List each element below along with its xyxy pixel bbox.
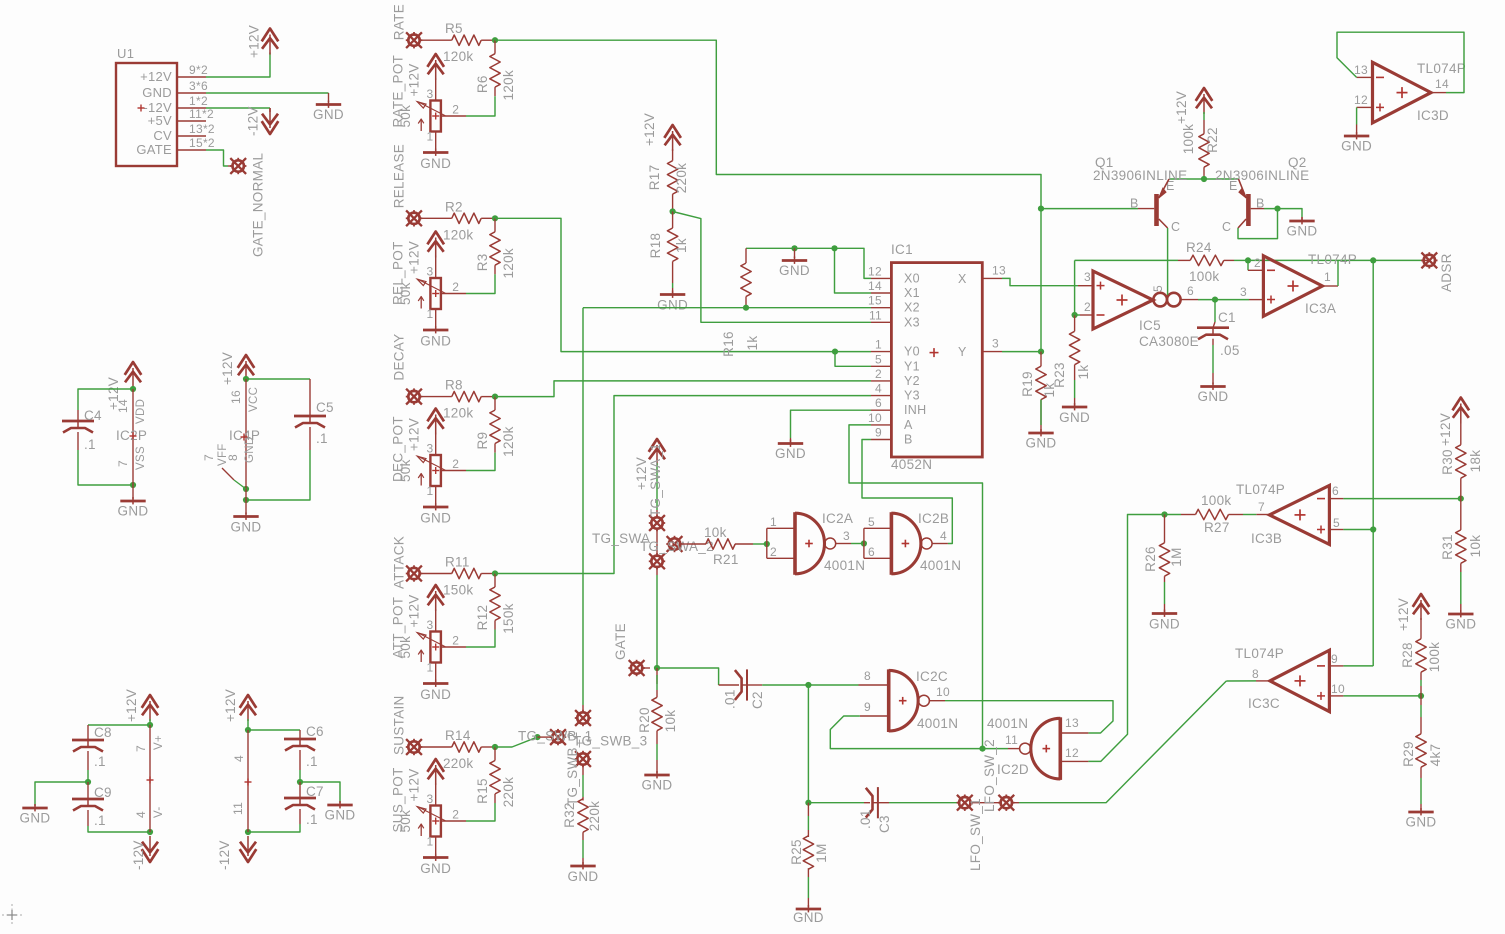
svg-text:R30: R30 xyxy=(1440,449,1455,475)
svg-text:50k: 50k xyxy=(398,810,413,833)
svg-text:15: 15 xyxy=(868,294,882,308)
svg-text:TG_SWB_3: TG_SWB_3 xyxy=(573,734,647,749)
svg-text:6: 6 xyxy=(875,396,882,410)
svg-text:+12V: +12V xyxy=(124,689,139,722)
svg-text:GND: GND xyxy=(420,511,451,526)
svg-text:12: 12 xyxy=(868,264,882,278)
svg-text:GND: GND xyxy=(20,811,51,826)
svg-text:1k: 1k xyxy=(745,336,760,351)
svg-text:Y0: Y0 xyxy=(904,345,920,359)
svg-text:C4: C4 xyxy=(84,408,102,423)
svg-text:+12V: +12V xyxy=(140,69,172,84)
svg-text:C2: C2 xyxy=(750,691,765,709)
svg-text:C6: C6 xyxy=(306,724,324,739)
svg-text:4001N: 4001N xyxy=(920,558,961,573)
svg-text:+12V: +12V xyxy=(407,63,422,96)
svg-text:-12V: -12V xyxy=(131,840,146,870)
svg-text:11: 11 xyxy=(1005,733,1018,747)
svg-text:18k: 18k xyxy=(1468,450,1483,473)
svg-text:GND: GND xyxy=(420,156,451,171)
svg-text:13: 13 xyxy=(1065,716,1079,730)
svg-text:RELEASE: RELEASE xyxy=(392,144,407,208)
svg-text:ADSR: ADSR xyxy=(1439,253,1454,292)
svg-text:10k: 10k xyxy=(704,525,727,540)
svg-text:IC5: IC5 xyxy=(1139,318,1161,333)
svg-text:10: 10 xyxy=(868,411,882,425)
svg-text:220k: 220k xyxy=(674,163,689,193)
svg-text:2: 2 xyxy=(452,808,459,822)
svg-text:1: 1 xyxy=(427,130,434,144)
svg-text:2: 2 xyxy=(452,634,459,648)
svg-text:TG_SWA_2: TG_SWA_2 xyxy=(640,539,714,554)
svg-text:GND: GND xyxy=(1149,617,1180,632)
svg-text:LFO_SW_1: LFO_SW_1 xyxy=(968,798,983,871)
svg-text:-12V: -12V xyxy=(217,840,232,870)
svg-text:V-: V- xyxy=(153,807,165,818)
svg-text:4: 4 xyxy=(232,755,246,762)
svg-text:.1: .1 xyxy=(316,431,328,446)
svg-text:220k: 220k xyxy=(587,801,602,831)
svg-text:Y1: Y1 xyxy=(904,359,920,373)
svg-text:GND: GND xyxy=(793,910,824,925)
svg-text:GND: GND xyxy=(325,808,356,823)
svg-text:C: C xyxy=(1222,220,1231,234)
svg-text:LFO_SW_2: LFO_SW_2 xyxy=(982,739,997,812)
svg-text:8: 8 xyxy=(1252,667,1259,681)
svg-text:X: X xyxy=(958,272,967,286)
svg-text:2N3906INLINE: 2N3906INLINE xyxy=(1093,168,1187,183)
svg-text:4: 4 xyxy=(940,529,947,543)
svg-text:R12: R12 xyxy=(475,605,490,631)
svg-text:R6: R6 xyxy=(475,75,490,93)
svg-text:15*2: 15*2 xyxy=(189,136,215,150)
svg-text:R8: R8 xyxy=(445,378,463,393)
svg-text:4001N: 4001N xyxy=(917,716,958,731)
svg-text:11: 11 xyxy=(869,308,882,322)
svg-text:.1: .1 xyxy=(84,437,96,452)
svg-text:X1: X1 xyxy=(904,286,920,300)
svg-text:1: 1 xyxy=(770,515,777,529)
svg-text:R24: R24 xyxy=(1186,240,1212,255)
svg-text:3: 3 xyxy=(427,618,434,632)
svg-text:1: 1 xyxy=(1324,270,1331,284)
svg-text:4: 4 xyxy=(875,382,882,396)
svg-text:R5: R5 xyxy=(445,21,463,36)
svg-text:5: 5 xyxy=(875,352,882,366)
svg-text:INH: INH xyxy=(904,403,926,417)
svg-text:GND: GND xyxy=(657,298,688,313)
svg-text:R22: R22 xyxy=(1205,127,1220,153)
svg-text:50k: 50k xyxy=(398,459,413,482)
svg-text:13*2: 13*2 xyxy=(189,122,215,136)
svg-text:+12V: +12V xyxy=(1174,91,1189,124)
svg-text:TL074P: TL074P xyxy=(1417,61,1466,76)
svg-text:2: 2 xyxy=(1084,300,1091,314)
svg-text:3: 3 xyxy=(427,87,434,101)
svg-text:V+: V+ xyxy=(153,735,165,750)
svg-text:13: 13 xyxy=(1354,63,1368,77)
svg-text:100k: 100k xyxy=(1189,269,1219,284)
svg-text:6: 6 xyxy=(1187,284,1194,298)
svg-text:TG_SWB_2: TG_SWB_2 xyxy=(565,732,580,806)
svg-text:4052N: 4052N xyxy=(891,457,932,472)
svg-text:GND: GND xyxy=(1198,389,1229,404)
svg-text:2: 2 xyxy=(770,545,777,559)
svg-text:6: 6 xyxy=(1332,484,1339,498)
svg-text:1: 1 xyxy=(427,661,434,675)
svg-text:GND: GND xyxy=(1341,139,1372,154)
svg-text:C3: C3 xyxy=(877,815,892,833)
svg-text:120k: 120k xyxy=(501,70,516,100)
svg-text:+5V: +5V xyxy=(148,113,172,128)
svg-text:TL074P: TL074P xyxy=(1236,482,1285,497)
svg-text:9: 9 xyxy=(1331,652,1338,666)
svg-text:2: 2 xyxy=(452,280,459,294)
svg-text:R28: R28 xyxy=(1400,642,1415,668)
svg-text:VFF: VFF xyxy=(217,443,229,466)
svg-text:14: 14 xyxy=(116,399,130,413)
svg-text:R19: R19 xyxy=(1020,371,1035,397)
svg-text:GND: GND xyxy=(420,334,451,349)
svg-text:10: 10 xyxy=(1331,682,1345,696)
svg-text:TL074P: TL074P xyxy=(1308,252,1357,267)
svg-text:1k: 1k xyxy=(674,238,689,253)
svg-text:VCC: VCC xyxy=(248,387,260,412)
svg-text:R20: R20 xyxy=(637,707,652,733)
svg-text:IC3A: IC3A xyxy=(1305,301,1336,316)
svg-text:.05: .05 xyxy=(1220,343,1240,358)
svg-text:GND: GND xyxy=(568,869,599,884)
svg-text:3: 3 xyxy=(1084,270,1091,284)
svg-text:R2: R2 xyxy=(445,199,463,214)
svg-text:7: 7 xyxy=(1258,500,1265,514)
svg-text:16: 16 xyxy=(229,390,243,404)
svg-text:2N3906INLINE: 2N3906INLINE xyxy=(1215,168,1309,183)
svg-text:1: 1 xyxy=(427,307,434,321)
svg-text:5: 5 xyxy=(868,515,875,529)
svg-text:Y3: Y3 xyxy=(904,389,920,403)
svg-text:.1: .1 xyxy=(306,812,318,827)
svg-text:10k: 10k xyxy=(1468,535,1483,558)
svg-text:1: 1 xyxy=(875,338,882,352)
svg-text:2: 2 xyxy=(452,457,459,471)
svg-text:X2: X2 xyxy=(904,301,920,315)
svg-text:C1: C1 xyxy=(1218,310,1236,325)
svg-text:GND: GND xyxy=(118,504,149,519)
svg-text:A: A xyxy=(904,418,913,432)
svg-text:13: 13 xyxy=(992,263,1006,277)
svg-text:R3: R3 xyxy=(475,253,490,271)
svg-text:IC3D: IC3D xyxy=(1417,108,1449,123)
svg-text:120k: 120k xyxy=(443,406,473,421)
svg-text:GND: GND xyxy=(420,861,451,876)
svg-text:1k: 1k xyxy=(1076,365,1091,380)
svg-text:GND: GND xyxy=(313,107,344,122)
svg-text:R26: R26 xyxy=(1143,546,1158,572)
svg-text:TG_SWA_1: TG_SWA_1 xyxy=(648,443,663,517)
svg-text:+12V: +12V xyxy=(407,768,422,801)
svg-text:R18: R18 xyxy=(648,233,663,259)
svg-text:3: 3 xyxy=(427,792,434,806)
svg-text:U1: U1 xyxy=(117,46,134,61)
svg-text:3: 3 xyxy=(1240,285,1247,299)
svg-text:7: 7 xyxy=(202,454,216,461)
svg-text:GATE_NORMAL: GATE_NORMAL xyxy=(251,152,266,257)
svg-text:GND: GND xyxy=(1026,436,1057,451)
svg-text:220k: 220k xyxy=(501,777,516,807)
svg-text:R25: R25 xyxy=(789,839,804,865)
svg-text:GND: GND xyxy=(1406,815,1437,830)
svg-text:C: C xyxy=(1171,220,1180,234)
svg-text:IC2B: IC2B xyxy=(918,511,949,526)
svg-text:50k: 50k xyxy=(398,282,413,305)
svg-text:C5: C5 xyxy=(316,400,334,415)
svg-text:R17: R17 xyxy=(647,165,662,191)
svg-text:120k: 120k xyxy=(501,248,516,278)
svg-text:12: 12 xyxy=(1065,746,1079,760)
svg-text:7: 7 xyxy=(134,745,148,752)
svg-text:3: 3 xyxy=(427,441,434,455)
svg-text:1: 1 xyxy=(427,484,434,498)
svg-text:14: 14 xyxy=(868,279,882,293)
svg-text:X3: X3 xyxy=(904,315,920,329)
svg-text:9: 9 xyxy=(875,426,882,440)
svg-text:+12V: +12V xyxy=(634,457,649,490)
svg-text:8: 8 xyxy=(864,669,871,683)
svg-text:IC3B: IC3B xyxy=(1251,531,1282,546)
svg-text:GND: GND xyxy=(1059,410,1090,425)
svg-text:.1: .1 xyxy=(94,813,106,828)
svg-text:+12V: +12V xyxy=(407,594,422,627)
svg-text:.01: .01 xyxy=(858,809,873,829)
svg-text:100k: 100k xyxy=(1201,493,1231,508)
svg-text:R27: R27 xyxy=(1204,520,1230,535)
svg-text:TL074P: TL074P xyxy=(1235,646,1284,661)
svg-text:GND: GND xyxy=(420,687,451,702)
svg-text:R31: R31 xyxy=(1440,534,1455,560)
svg-text:DECAY: DECAY xyxy=(392,334,407,381)
svg-text:2: 2 xyxy=(452,103,459,117)
svg-text:.1: .1 xyxy=(94,754,106,769)
svg-text:150k: 150k xyxy=(501,603,516,633)
svg-text:+12V: +12V xyxy=(642,113,657,146)
svg-text:R11: R11 xyxy=(445,555,470,570)
svg-text:7: 7 xyxy=(116,460,130,467)
svg-text:CV: CV xyxy=(153,128,172,143)
svg-text:10: 10 xyxy=(936,685,950,699)
svg-text:GND: GND xyxy=(779,263,810,278)
svg-text:1M: 1M xyxy=(814,843,829,862)
svg-text:+12V: +12V xyxy=(1396,598,1411,631)
svg-text:VSS: VSS xyxy=(135,446,147,470)
svg-text:GATE: GATE xyxy=(613,623,628,660)
svg-text:220k: 220k xyxy=(443,756,473,771)
svg-text:GND: GND xyxy=(775,446,806,461)
svg-text:1*2: 1*2 xyxy=(189,94,208,108)
svg-text:X0: X0 xyxy=(904,271,920,285)
svg-text:GND: GND xyxy=(642,778,673,793)
svg-text:3: 3 xyxy=(992,337,999,351)
svg-text:14: 14 xyxy=(1435,77,1449,91)
svg-text:100k: 100k xyxy=(1427,642,1442,672)
svg-text:R9: R9 xyxy=(475,432,490,450)
svg-text:4: 4 xyxy=(134,811,148,818)
svg-text:1: 1 xyxy=(427,835,434,849)
svg-text:IC3C: IC3C xyxy=(1248,696,1280,711)
svg-text:50k: 50k xyxy=(398,636,413,659)
svg-text:IC2C: IC2C xyxy=(916,669,948,684)
svg-text:3: 3 xyxy=(427,264,434,278)
svg-text:3: 3 xyxy=(843,529,850,543)
svg-text:4001N: 4001N xyxy=(824,558,865,573)
svg-text:R16: R16 xyxy=(721,331,736,357)
svg-text:+12V: +12V xyxy=(247,25,262,58)
svg-text:C7: C7 xyxy=(306,784,324,799)
svg-text:ATTACK: ATTACK xyxy=(392,536,407,589)
svg-text:4001N: 4001N xyxy=(987,716,1028,731)
svg-text:R21: R21 xyxy=(713,552,739,567)
svg-text:.01: .01 xyxy=(723,689,738,709)
svg-text:11*2: 11*2 xyxy=(189,107,214,121)
svg-text:GATE: GATE xyxy=(136,142,172,157)
svg-text:GND: GND xyxy=(1445,617,1476,632)
svg-text:2: 2 xyxy=(875,367,882,381)
svg-text:+12V: +12V xyxy=(223,689,238,722)
svg-text:+12V: +12V xyxy=(220,352,235,385)
svg-text:9*2: 9*2 xyxy=(189,63,208,77)
svg-text:GND: GND xyxy=(231,520,262,535)
svg-text:+12V: +12V xyxy=(1438,413,1453,446)
svg-text:B: B xyxy=(904,433,913,447)
svg-text:120k: 120k xyxy=(501,426,516,456)
svg-text:120k: 120k xyxy=(443,227,473,242)
svg-text:+12V: +12V xyxy=(407,241,422,274)
svg-text:.1: .1 xyxy=(306,754,318,769)
svg-text:VDD: VDD xyxy=(135,399,147,424)
svg-text:IC1: IC1 xyxy=(891,242,913,257)
svg-text:150k: 150k xyxy=(443,583,473,598)
svg-text:+12V: +12V xyxy=(407,418,422,451)
svg-text:4k7: 4k7 xyxy=(1428,744,1443,767)
svg-text:CA3080E: CA3080E xyxy=(1139,334,1199,349)
svg-text:RATE: RATE xyxy=(392,4,407,40)
svg-text:2: 2 xyxy=(1254,256,1261,270)
svg-text:R29: R29 xyxy=(1401,741,1416,767)
svg-text:-12V: -12V xyxy=(246,106,261,136)
svg-text:R23: R23 xyxy=(1052,362,1067,388)
svg-text:6: 6 xyxy=(868,545,875,559)
svg-text:GND: GND xyxy=(142,85,172,100)
svg-text:120k: 120k xyxy=(443,49,473,64)
svg-text:100k: 100k xyxy=(1181,124,1196,154)
svg-text:5: 5 xyxy=(1333,516,1340,530)
svg-text:Y: Y xyxy=(958,345,967,359)
svg-text:11: 11 xyxy=(231,802,245,815)
svg-text:GND: GND xyxy=(1287,224,1318,239)
svg-text:IC2D: IC2D xyxy=(997,762,1029,777)
svg-text:12: 12 xyxy=(1354,93,1368,107)
svg-text:R14: R14 xyxy=(445,728,471,743)
svg-text:9: 9 xyxy=(864,700,871,714)
svg-text:10k: 10k xyxy=(663,710,678,733)
svg-text:IC2A: IC2A xyxy=(822,511,853,526)
svg-text:5: 5 xyxy=(1151,285,1165,292)
svg-text:Y2: Y2 xyxy=(904,374,920,388)
svg-text:C8: C8 xyxy=(94,725,112,740)
svg-text:3*6: 3*6 xyxy=(189,79,208,93)
svg-text:SUSTAIN: SUSTAIN xyxy=(392,695,407,755)
svg-text:50k: 50k xyxy=(398,105,413,128)
svg-text:C9: C9 xyxy=(94,785,112,800)
svg-text:B: B xyxy=(1130,197,1139,211)
svg-text:1M: 1M xyxy=(1169,547,1184,566)
svg-text:R15: R15 xyxy=(475,778,490,804)
